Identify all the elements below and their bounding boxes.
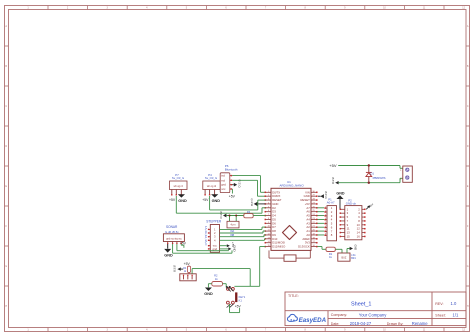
svg-text:H: H <box>5 305 7 308</box>
wire R1 to buzzer <box>335 249 342 253</box>
svg-text:EasyEDA: EasyEDA <box>299 317 327 324</box>
svg-text:Sheet:: Sheet: <box>435 313 445 317</box>
svg-text:INB: INB <box>230 234 235 237</box>
svg-text:KEY1: KEY1 <box>239 295 246 299</box>
svg-text:Your Company: Your Company <box>359 312 387 317</box>
+5V flag P2 pin2 <box>366 203 374 210</box>
svg-text:+5V: +5V <box>184 262 191 266</box>
ground SONAR pin1 <box>164 244 173 257</box>
connector P1 <box>324 206 336 241</box>
svg-text:GND-dx: GND-dx <box>346 202 357 206</box>
wire SONAR echo <box>173 244 232 253</box>
resistor R2 <box>208 274 226 288</box>
ground flag D1 circuit <box>332 176 338 185</box>
svg-text:gnd eco trg vcc: gnd eco trg vcc <box>166 237 182 240</box>
svg-text:+5V: +5V <box>169 198 176 202</box>
ground P7 <box>178 194 187 203</box>
svg-text:D1: D1 <box>370 172 374 176</box>
svg-text:REV:: REV: <box>435 302 443 306</box>
svg-text:GND: GND <box>164 253 173 257</box>
connector STEPPER <box>204 225 220 253</box>
svg-text:C: C <box>5 105 7 108</box>
junction dot bottom <box>368 182 370 184</box>
svg-text:1/1: 1/1 <box>453 312 459 317</box>
svg-text:PB815WS: PB815WS <box>373 176 386 180</box>
wire U1 D12/MISO down to key <box>234 247 265 287</box>
diode D1 <box>366 166 386 183</box>
ground flag P2 pin1 <box>336 192 345 210</box>
connector SONAR <box>163 234 184 244</box>
buzzer LS1 <box>338 253 357 261</box>
switch KEY1 <box>226 286 246 308</box>
ground R2 <box>204 288 213 297</box>
ground flag cluster <box>174 264 184 273</box>
svg-text:D: D <box>251 203 253 207</box>
svg-text:A0-A7: A0-A7 <box>327 200 335 204</box>
svg-text:Sv_O3_G: Sv_O3_G <box>205 176 217 180</box>
connector P2 <box>340 206 366 240</box>
wire P4 signal to U1 RESET <box>210 196 266 210</box>
svg-text:H: H <box>467 305 469 308</box>
wire P6 rxd to U1 D0/RX <box>232 180 265 196</box>
wire STEPPER 2 to U1 D8 <box>220 231 266 233</box>
title block frame <box>285 292 466 326</box>
svg-text:+5V: +5V <box>202 198 209 202</box>
connector P5 <box>180 274 196 281</box>
svg-text:GND: GND <box>336 192 345 196</box>
resistor R4 <box>183 266 190 274</box>
svg-text:GND: GND <box>212 199 221 203</box>
svg-text:vcc: vcc <box>221 187 226 191</box>
ground flag stepper gnd <box>220 245 237 251</box>
svg-text:wh og rd: wh og rd <box>174 185 184 188</box>
svg-text:wh og rd: wh og rd <box>207 185 217 188</box>
svg-text:+5V: +5V <box>229 194 236 198</box>
svg-text:+5V: +5V <box>235 304 242 308</box>
ground flag R3 <box>220 210 226 219</box>
svg-text:GND: GND <box>354 245 357 251</box>
wire cluster to key <box>192 269 250 287</box>
svg-text:G: G <box>467 265 469 268</box>
wire U1 D13/SCK to R1 <box>317 247 326 250</box>
svg-text:C: C <box>467 105 469 108</box>
crystal loop under U1 <box>269 250 310 261</box>
svg-text:+5V: +5V <box>180 242 187 246</box>
svg-text:GND: GND <box>233 245 237 251</box>
wire SONAR trig <box>177 244 229 251</box>
svg-text:+5V: +5V <box>329 163 337 168</box>
svg-text:D: D <box>5 145 7 148</box>
svg-text:D: D <box>332 181 334 185</box>
svg-text:1A,2A,3A,4A,C: 1A,2A,3A,4A,C <box>204 226 208 245</box>
svg-text:BZ1: BZ1 <box>351 257 356 260</box>
svg-text:STEPPER: STEPPER <box>206 220 222 224</box>
svg-text:ARDUINO_NANO: ARDUINO_NANO <box>280 184 305 188</box>
svg-text:D13/SCK: D13/SCK <box>298 245 310 249</box>
svg-text:txd: txd <box>221 174 225 178</box>
wire STEPPER 1 to U1 D7 <box>220 227 266 229</box>
connector P6 <box>220 173 232 193</box>
svg-text:INA: INA <box>230 230 235 233</box>
svg-text:D: D <box>467 145 469 148</box>
terminal block P3 <box>400 166 412 182</box>
wire STEPPER 4 to U1 D10 <box>220 239 266 241</box>
svg-text:15: 15 <box>347 234 351 238</box>
ground flag U1 left GND pin <box>251 198 266 208</box>
wire P7 signal to U1 D2 <box>176 196 265 213</box>
+5V flag stepper vcc <box>220 242 236 247</box>
svg-text:D: D <box>325 195 327 199</box>
svg-text:Sv_O3_G: Sv_O3_G <box>172 176 184 180</box>
svg-text:Rename: Rename <box>412 321 428 326</box>
ground flag P6 gnd pin <box>232 179 240 189</box>
ic U1 ARDUINO_NANO body <box>265 188 318 250</box>
svg-text:rxd: rxd <box>221 178 225 182</box>
svg-text:Drawn By:: Drawn By: <box>387 322 404 326</box>
wire key bottom loop <box>230 304 240 313</box>
EasyEDA logo <box>288 314 327 324</box>
svg-text:2019-04-27: 2019-04-27 <box>350 321 372 326</box>
svg-text:GND: GND <box>178 199 187 203</box>
svg-text:Bluetooth: Bluetooth <box>225 168 238 172</box>
svg-text:D: D <box>174 269 176 273</box>
connector P4 <box>203 181 221 196</box>
wires U1 A7-A0 to P1 <box>317 208 324 235</box>
svg-text:D: D <box>239 184 241 188</box>
svg-text:Sheet_1: Sheet_1 <box>351 301 372 307</box>
ground P4 <box>211 194 220 203</box>
svg-text:D12/MISO: D12/MISO <box>272 245 286 249</box>
svg-text:Company:: Company: <box>331 313 347 317</box>
svg-text:4c-m: 4c-m <box>230 225 235 227</box>
ground flag buzzer <box>347 245 357 254</box>
capacitor box above stepper <box>227 215 239 228</box>
wire gnd to terminal <box>339 178 403 182</box>
svg-text:1.0: 1.0 <box>451 301 457 306</box>
wire P6 txd to U1 D0/TX <box>232 176 265 193</box>
svg-text:BUZ: BUZ <box>342 256 347 259</box>
svg-text:G: G <box>5 265 7 268</box>
svg-text:TITLE:: TITLE: <box>288 294 299 298</box>
+5V flag P6 vcc pin <box>229 189 236 198</box>
junction dot top <box>368 164 370 166</box>
ground flag U1 right GND pin <box>318 190 327 200</box>
svg-text:16: 16 <box>357 234 361 238</box>
svg-text:Date:: Date: <box>331 322 340 326</box>
resistor R1 <box>326 247 335 259</box>
connector P7 <box>170 181 188 196</box>
wire STEPPER 3 to U1 D9 <box>220 235 266 237</box>
svg-text:R3: R3 <box>247 210 251 214</box>
wire +5V to terminal <box>338 166 403 169</box>
+5V flag SONAR <box>180 242 187 248</box>
resistor R3 <box>226 210 265 218</box>
svg-text:K1: K1 <box>239 299 243 303</box>
svg-text:SONAR: SONAR <box>166 225 178 229</box>
svg-text:GND: GND <box>204 292 213 296</box>
